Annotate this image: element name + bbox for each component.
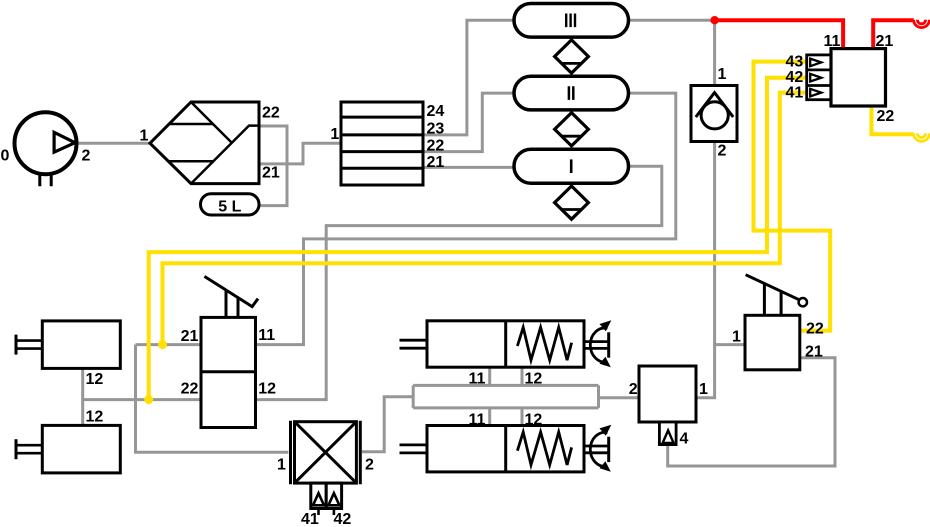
wire pilot valve port 1 [696, 396, 716, 399]
wire cylinder 12 vertical [81, 368, 84, 425]
yellow coil end [914, 133, 930, 141]
svg-text:22: 22 [806, 321, 824, 338]
wire branch to lever valve port 1 [713, 343, 745, 346]
wire rail bus [413, 385, 598, 408]
wire gripper bottom ports [490, 408, 522, 426]
svg-text:1: 1 [330, 126, 339, 143]
wire yellow 41 [163, 93, 807, 345]
wire rail to pilot valve 2 [599, 396, 640, 399]
svg-text:22: 22 [181, 381, 199, 398]
node yellow junction on 22 wire [144, 395, 153, 404]
wire check valve 2 down [713, 142, 716, 398]
wire yellow block 22 out [872, 106, 914, 134]
svg-text:1: 1 [718, 66, 727, 83]
wire service unit 21 to manifold 1 [259, 143, 341, 164]
cylinder box lower left [16, 425, 120, 473]
svg-text:12: 12 [86, 409, 104, 426]
wire reservoir I to valve port 12 [256, 166, 662, 399]
svg-text:43: 43 [786, 53, 804, 70]
svg-text:22: 22 [262, 105, 280, 122]
wire valve port 21 [136, 343, 202, 346]
filter under I [555, 186, 589, 219]
pilot valve with port 4 [639, 366, 696, 445]
wire reservoir III to junction [629, 19, 715, 22]
cylinder box upper left [16, 321, 120, 369]
tank 5L [201, 194, 260, 215]
svg-text:42: 42 [786, 69, 804, 86]
svg-text:21: 21 [181, 328, 199, 345]
filter under II [555, 113, 589, 146]
filter under III [555, 40, 589, 73]
reservoir III [514, 4, 629, 38]
svg-text:12: 12 [86, 371, 104, 388]
svg-text:11: 11 [824, 33, 841, 50]
svg-text:1: 1 [732, 329, 741, 346]
lever valve left [201, 276, 258, 427]
svg-text:1: 1 [277, 457, 286, 474]
svg-text:24: 24 [427, 103, 445, 120]
svg-text:4: 4 [680, 431, 689, 448]
wire service unit 22 to tank 5L [259, 126, 287, 206]
wire X-box 2 to rail [362, 397, 413, 452]
wire manifold 21 to reservoir I [423, 166, 514, 169]
manifold block [341, 102, 423, 185]
wire red to block 11 [715, 20, 844, 48]
lever valve right [745, 275, 807, 370]
svg-text:1: 1 [699, 381, 708, 398]
svg-text:41: 41 [301, 511, 319, 527]
svg-text:11: 11 [258, 327, 275, 344]
wire reservoir II to valve port 11 [256, 93, 676, 345]
svg-text:11: 11 [469, 411, 486, 428]
shuttle block with inputs 41 42 43 [807, 49, 886, 106]
gripper unit top [400, 320, 612, 367]
svg-text:22: 22 [427, 138, 445, 155]
svg-text:2: 2 [629, 381, 638, 398]
wire red block 21 out [873, 20, 914, 48]
svg-text:2: 2 [365, 457, 374, 474]
svg-text:42: 42 [334, 511, 352, 527]
reservoir II [514, 76, 629, 110]
wire yellow 42 [149, 78, 807, 400]
wire lever valve 21 to pilot valve 4 [668, 358, 835, 466]
wire port 21 loop to X-box 1 [136, 345, 289, 453]
svg-text:22: 22 [877, 108, 895, 125]
wire valve port 22 to cylinders 12 [83, 398, 201, 401]
svg-text:5 L: 5 L [218, 199, 241, 216]
svg-text:2: 2 [82, 148, 91, 165]
svg-text:41: 41 [786, 85, 804, 102]
X-box valve [291, 421, 361, 515]
svg-text:23: 23 [427, 121, 445, 138]
reservoir I [514, 149, 629, 183]
svg-text:12: 12 [258, 381, 276, 398]
svg-text:12: 12 [525, 411, 543, 428]
node yellow junction on 21 wire [158, 340, 167, 349]
svg-text:21: 21 [262, 165, 280, 182]
svg-text:11: 11 [469, 371, 486, 388]
gripper unit bottom [400, 425, 612, 472]
svg-text:21: 21 [876, 33, 894, 50]
svg-text:12: 12 [525, 371, 543, 388]
wire gripper top ports [490, 367, 522, 385]
check valve [691, 86, 737, 142]
wire manifold 23 to reservoir III [423, 20, 514, 135]
wire manifold 22 to reservoir II [423, 93, 514, 152]
wire yellow 43 to lever valve 22 [754, 62, 831, 331]
svg-text:1: 1 [140, 128, 149, 145]
compressor 0 [15, 112, 77, 186]
svg-text:21: 21 [805, 344, 823, 361]
node red junction [710, 16, 718, 24]
wire junction to check valve 1 [713, 20, 716, 85]
svg-text:21: 21 [427, 154, 445, 171]
svg-text:2: 2 [718, 143, 727, 160]
air service unit [150, 102, 259, 184]
svg-text:0: 0 [1, 148, 10, 165]
red coil end [914, 20, 930, 28]
wire compressor 2 to service unit 1 [77, 142, 150, 145]
